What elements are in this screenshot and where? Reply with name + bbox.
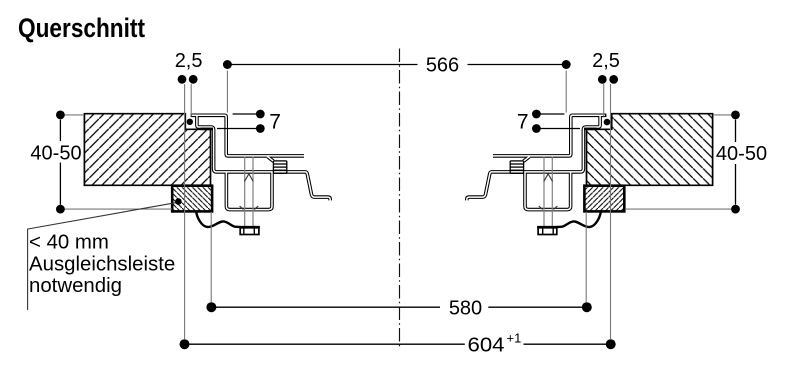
ext 2,5 inner right: [603, 84, 605, 117]
ext 2,5/604 right: [610, 84, 612, 339]
diagonal jog to clamp block: [268, 157, 274, 162]
appliance profile left half: [191, 114, 330, 235]
ext 2,5 inner left: [190, 84, 192, 117]
clamp screw block: [273, 161, 286, 173]
tub bottom chevron marks: [240, 206, 244, 209]
leader line to note text: [28, 202, 178, 310]
ext 580 right: [585, 212, 587, 302]
ext 40-50 right top: [713, 114, 732, 116]
svg-text:Ausgleichsleiste: Ausgleichsleiste: [29, 253, 175, 275]
extension lines gray: [65, 71, 732, 340]
dimension 7 left: [217, 114, 258, 129]
svg-text:2,5: 2,5: [175, 50, 203, 72]
dimension 604+1: [186, 343, 609, 345]
worktop slab left (hatched, with rebate): [84, 114, 210, 186]
sheet: top face + outer wall + base flange: [192, 115, 304, 156]
svg-text:notwendig: notwendig: [29, 275, 122, 297]
svg-text:7: 7: [517, 111, 529, 134]
svg-text:+1: +1: [507, 331, 522, 346]
ext 580 left: [210, 212, 212, 302]
washer: [240, 226, 260, 228]
sheet: edge staircase + lower flange + Z-bracket: [197, 116, 330, 200]
ext 566 right: [565, 71, 567, 113]
leader dot in strip: [175, 198, 182, 205]
svg-text:Querschnitt: Querschnitt: [18, 13, 145, 43]
svg-text:566: 566: [426, 55, 459, 77]
ext 566 left: [226, 71, 228, 113]
break squiggle: [196, 212, 240, 227]
ext 2,5/604 left: [184, 84, 186, 339]
seating contact line on rebate: [201, 128, 214, 131]
burner tub: [226, 173, 272, 210]
ext 40-50 left bottom: [65, 208, 172, 210]
dimension 40-50 right: [735, 120, 737, 205]
compensation strip right: [584, 186, 624, 212]
leader dot gap right: [604, 119, 611, 126]
svg-text:40-50: 40-50: [30, 142, 81, 164]
dimension 7 right: [539, 114, 580, 129]
appliance profile right half (mirror): [467, 114, 606, 235]
dimension 40-50 left: [59, 120, 61, 205]
dimension 566: [229, 64, 564, 66]
center line dash-dot: [399, 49, 401, 349]
svg-text:7: 7: [269, 111, 281, 134]
svg-text:40-50: 40-50: [716, 143, 767, 165]
compensation strip (Ausgleichsleiste) left: [172, 186, 212, 212]
ext 40-50 right bottom: [626, 208, 732, 210]
white centers of double lines: [192, 115, 304, 156]
clamp stud: [244, 157, 246, 227]
svg-text:580: 580: [449, 297, 482, 319]
glass edge end cap: [190, 114, 192, 118]
svg-text:604: 604: [468, 334, 505, 356]
worktop slab right (hatched, with rebate): [587, 114, 713, 186]
stud tip chevron: [245, 174, 254, 182]
dimension 580: [213, 306, 585, 308]
svg-text:2,5: 2,5: [592, 50, 620, 72]
ext 40-50 left top: [65, 114, 85, 116]
hex nut: [240, 228, 259, 235]
svg-text:< 40 mm: < 40 mm: [29, 232, 109, 254]
leader dot gap left: [187, 119, 193, 125]
